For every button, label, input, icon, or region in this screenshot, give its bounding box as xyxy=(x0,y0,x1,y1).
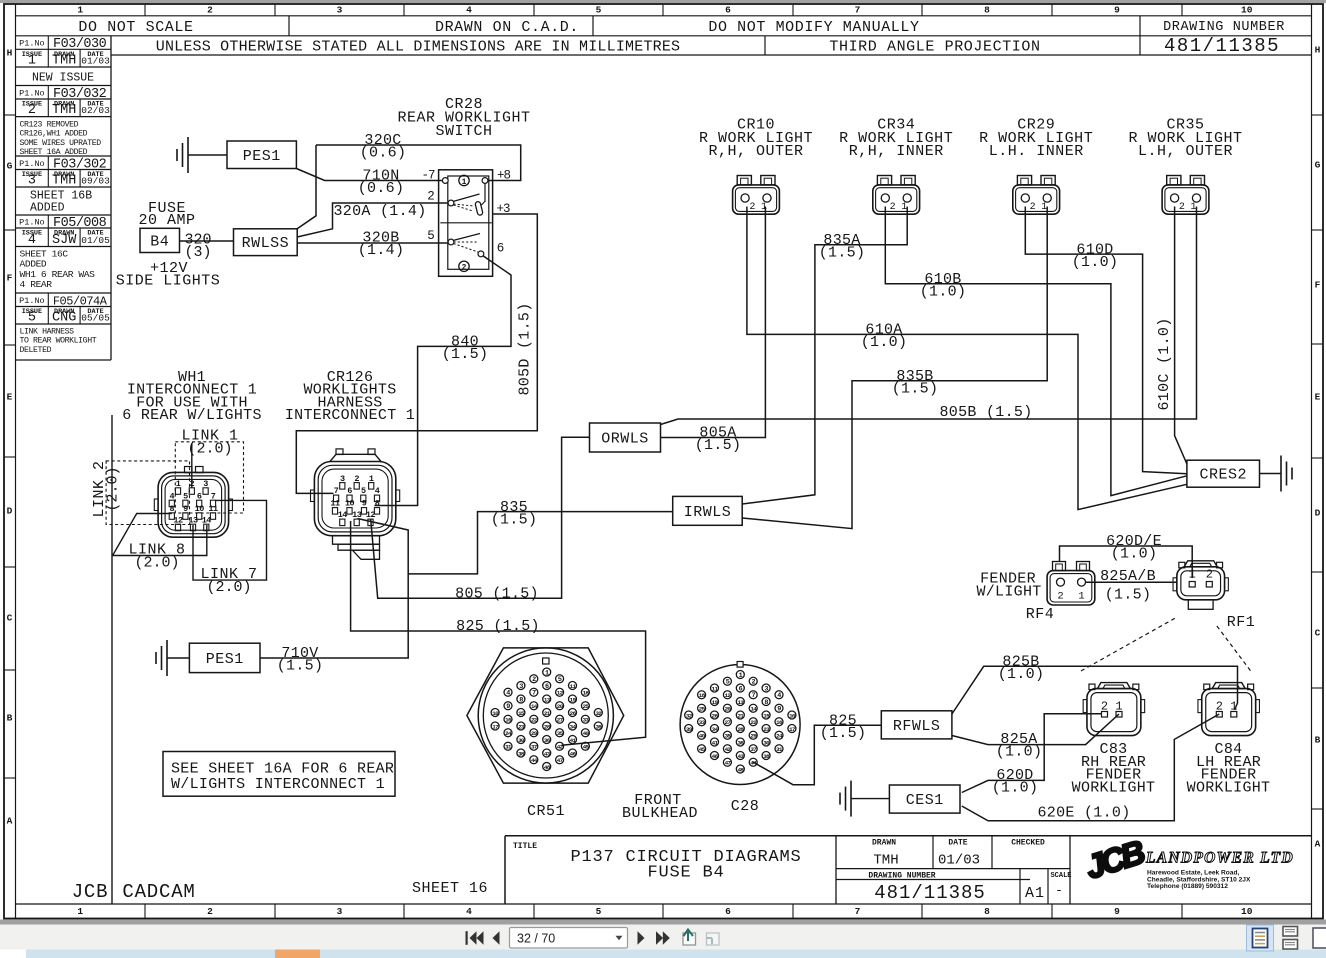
svg-text:C: C xyxy=(7,613,13,624)
svg-text:01/03: 01/03 xyxy=(81,56,110,67)
svg-text:RF4: RF4 xyxy=(1026,606,1055,623)
svg-text:TO REAR WORKLIGHT: TO REAR WORKLIGHT xyxy=(20,337,97,346)
svg-text:(2.0): (2.0) xyxy=(187,441,232,458)
svg-text:4: 4 xyxy=(466,906,472,917)
svg-text:610C (1.0): 610C (1.0) xyxy=(1156,317,1173,410)
svg-text:RFWLS: RFWLS xyxy=(893,718,941,735)
svg-text:481/11385: 481/11385 xyxy=(874,882,986,904)
svg-text:UNLESS OTHERWISE STATED ALL DI: UNLESS OTHERWISE STATED ALL DIMENSIONS A… xyxy=(156,39,680,56)
svg-text:JCB: JCB xyxy=(72,881,109,903)
svg-text:PES1: PES1 xyxy=(243,148,281,165)
svg-text:DRAWN: DRAWN xyxy=(872,839,896,848)
svg-text:FUSE B4: FUSE B4 xyxy=(647,864,724,883)
svg-text:INTERCONNECT 1: INTERCONNECT 1 xyxy=(285,407,415,424)
svg-text:(1.0): (1.0) xyxy=(992,780,1039,797)
svg-text:1: 1 xyxy=(1041,202,1047,213)
svg-text:RWLSS: RWLSS xyxy=(242,235,290,252)
svg-text:(1.0): (1.0) xyxy=(998,666,1045,683)
svg-text:WORKLIGHT: WORKLIGHT xyxy=(1187,779,1271,796)
svg-text:(2.0): (2.0) xyxy=(206,579,251,596)
svg-text:8: 8 xyxy=(984,906,990,917)
svg-text:805B (1.5): 805B (1.5) xyxy=(939,404,1032,421)
svg-text:SEE SHEET 16A FOR 6 REAR: SEE SHEET 16A FOR 6 REAR xyxy=(171,761,394,778)
svg-text:NEW ISSUE: NEW ISSUE xyxy=(32,72,94,85)
svg-text:LANDPOWER LTD: LANDPOWER LTD xyxy=(1145,850,1294,867)
svg-text:2: 2 xyxy=(28,103,36,118)
svg-text:(1.5): (1.5) xyxy=(892,381,939,398)
svg-text:(1.5): (1.5) xyxy=(695,437,742,454)
svg-text:2: 2 xyxy=(1179,202,1185,213)
svg-text:H: H xyxy=(7,48,13,59)
svg-text:TMH: TMH xyxy=(52,103,76,118)
svg-text:(1.0): (1.0) xyxy=(920,284,967,301)
svg-text:4: 4 xyxy=(28,233,36,248)
svg-text:TMH: TMH xyxy=(873,853,898,869)
svg-text:DO NOT MODIFY MANUALLY: DO NOT MODIFY MANUALLY xyxy=(708,19,919,36)
svg-text:9: 9 xyxy=(1114,5,1120,16)
svg-text:2: 2 xyxy=(1057,591,1063,603)
svg-text:825A/B: 825A/B xyxy=(1100,568,1156,585)
svg-text:DRAWING NUMBER: DRAWING NUMBER xyxy=(1163,20,1285,35)
svg-text:(0.6): (0.6) xyxy=(360,145,407,162)
svg-text:TITLE: TITLE xyxy=(513,842,537,851)
svg-text:1: 1 xyxy=(545,669,549,677)
svg-text:2: 2 xyxy=(1030,202,1036,213)
svg-text:2: 2 xyxy=(462,264,467,273)
svg-text:6: 6 xyxy=(497,242,505,256)
svg-text:A: A xyxy=(1315,839,1321,850)
svg-text:5: 5 xyxy=(427,229,435,243)
svg-text:P1.No: P1.No xyxy=(19,296,45,306)
svg-text:320A (1.4): 320A (1.4) xyxy=(333,203,426,220)
svg-text:H: H xyxy=(1315,45,1321,56)
svg-text:P1.No: P1.No xyxy=(19,159,45,169)
svg-text:4: 4 xyxy=(466,5,472,16)
svg-text:G: G xyxy=(1315,160,1321,171)
svg-text:G: G xyxy=(7,161,13,172)
svg-text:5: 5 xyxy=(726,679,730,687)
svg-text:DRAWN ON C.A.D.: DRAWN ON C.A.D. xyxy=(435,19,579,36)
svg-text:DELETED: DELETED xyxy=(20,346,52,355)
svg-text:6: 6 xyxy=(725,5,731,16)
svg-text:F: F xyxy=(1315,280,1321,291)
svg-text:09/03: 09/03 xyxy=(81,176,110,187)
svg-text:DRAWING NUMBER: DRAWING NUMBER xyxy=(868,872,935,881)
svg-text:1: 1 xyxy=(1078,591,1084,603)
svg-text:SIDE LIGHTS: SIDE LIGHTS xyxy=(116,273,221,290)
svg-text:6: 6 xyxy=(725,906,731,917)
svg-text:CNG: CNG xyxy=(52,311,76,326)
svg-text:CR126,WH1 ADDED: CR126,WH1 ADDED xyxy=(20,130,88,139)
svg-text:P1.No: P1.No xyxy=(19,88,45,98)
svg-text:3: 3 xyxy=(337,906,343,917)
svg-text:(1.5): (1.5) xyxy=(820,725,867,742)
svg-text:8: 8 xyxy=(519,696,523,704)
svg-text:SJW: SJW xyxy=(52,233,77,248)
svg-text:(0.6): (0.6) xyxy=(358,180,405,197)
svg-text:L.H. INNER: L.H. INNER xyxy=(989,143,1084,160)
svg-text:CHECKED: CHECKED xyxy=(1011,839,1045,848)
svg-text:(1.0): (1.0) xyxy=(996,744,1043,761)
svg-text:(1.5): (1.5) xyxy=(1105,587,1152,604)
svg-text:P1.No: P1.No xyxy=(19,218,45,228)
svg-text:-: - xyxy=(1055,883,1063,898)
svg-text:2: 2 xyxy=(890,202,896,213)
svg-text:10: 10 xyxy=(1241,5,1253,16)
svg-text:SHEET 16: SHEET 16 xyxy=(412,880,488,897)
svg-text:(1.0): (1.0) xyxy=(861,334,908,351)
svg-text:805 (1.5): 805 (1.5) xyxy=(455,586,539,603)
svg-text:(1.0): (1.0) xyxy=(1111,546,1158,563)
svg-text:ORWLS: ORWLS xyxy=(601,431,649,448)
svg-text:PES1: PES1 xyxy=(206,651,244,668)
svg-text:(1.5): (1.5) xyxy=(277,658,324,675)
svg-text:7: 7 xyxy=(752,692,756,700)
svg-text:9: 9 xyxy=(1114,906,1120,917)
svg-text:E: E xyxy=(1315,392,1321,403)
svg-text:B: B xyxy=(1315,735,1321,746)
svg-text:620E (1.0): 620E (1.0) xyxy=(1037,805,1130,822)
svg-text:481/11385: 481/11385 xyxy=(1164,35,1280,57)
svg-text:DO NOT SCALE: DO NOT SCALE xyxy=(78,19,193,36)
svg-text:7: 7 xyxy=(855,906,861,917)
svg-text:SWITCH: SWITCH xyxy=(435,123,492,140)
svg-text:1: 1 xyxy=(462,178,467,187)
svg-text:THIRD ANGLE PROJECTION: THIRD ANGLE PROJECTION xyxy=(829,39,1040,56)
svg-text:(2.0): (2.0) xyxy=(134,555,179,572)
svg-text:LINK HARNESS: LINK HARNESS xyxy=(20,328,75,337)
svg-text:3: 3 xyxy=(519,683,523,691)
svg-text:L.H, OUTER: L.H, OUTER xyxy=(1138,143,1233,160)
svg-text:R,H, OUTER: R,H, OUTER xyxy=(708,143,803,160)
svg-text:4 REAR: 4 REAR xyxy=(20,279,53,290)
svg-text:01/03: 01/03 xyxy=(938,853,980,869)
svg-text:2: 2 xyxy=(207,906,213,917)
svg-text:C: C xyxy=(1315,628,1321,639)
svg-text:CR51: CR51 xyxy=(527,803,565,820)
svg-text:(1.5): (1.5) xyxy=(819,245,866,262)
svg-text:5: 5 xyxy=(596,5,602,16)
svg-text:A: A xyxy=(7,816,13,827)
svg-text:SHEET 16A ADDED: SHEET 16A ADDED xyxy=(20,148,88,157)
svg-text:TMH: TMH xyxy=(52,174,76,189)
svg-text:(1.0): (1.0) xyxy=(1072,254,1119,271)
svg-text:7: 7 xyxy=(855,5,861,16)
svg-text:C28: C28 xyxy=(731,798,760,815)
svg-text:825 (1.5): 825 (1.5) xyxy=(456,618,540,635)
svg-text:D: D xyxy=(7,506,13,517)
svg-text:IRWLS: IRWLS xyxy=(684,504,732,521)
svg-text:CADCAM: CADCAM xyxy=(122,881,195,903)
svg-text:805D (1.5): 805D (1.5) xyxy=(517,302,534,395)
svg-text:1: 1 xyxy=(1190,202,1196,213)
svg-text:D: D xyxy=(1315,508,1321,519)
svg-text:1: 1 xyxy=(77,5,83,16)
svg-text:(1.5): (1.5) xyxy=(491,512,538,529)
svg-text:CES1: CES1 xyxy=(906,792,944,809)
svg-text:2: 2 xyxy=(752,679,756,687)
svg-text:05/05: 05/05 xyxy=(81,313,110,324)
svg-text:02/03: 02/03 xyxy=(81,105,110,116)
svg-text:P1.No: P1.No xyxy=(19,39,45,49)
svg-text:TMH: TMH xyxy=(52,54,76,69)
svg-text:E: E xyxy=(7,392,13,403)
svg-text:WORKLIGHT: WORKLIGHT xyxy=(1072,779,1156,796)
svg-text:2: 2 xyxy=(749,202,755,213)
svg-text:R,H, INNER: R,H, INNER xyxy=(849,143,944,160)
svg-text:2: 2 xyxy=(207,5,213,16)
svg-text:(1.4): (1.4) xyxy=(358,242,405,259)
svg-text:1: 1 xyxy=(77,906,83,917)
svg-text:01/05: 01/05 xyxy=(81,235,110,246)
svg-text:1: 1 xyxy=(901,202,907,213)
svg-text:(1.5): (1.5) xyxy=(442,346,489,363)
svg-text:Telephone (01889) 590312: Telephone (01889) 590312 xyxy=(1147,883,1228,890)
svg-text:6 REAR W/LIGHTS: 6 REAR W/LIGHTS xyxy=(122,407,262,424)
svg-text:CR123 REMOVED: CR123 REMOVED xyxy=(20,121,79,130)
svg-text:B: B xyxy=(7,713,13,724)
svg-text:2: 2 xyxy=(1206,568,1213,582)
svg-text:1: 1 xyxy=(28,54,36,69)
svg-text:F: F xyxy=(7,273,13,284)
svg-text:5: 5 xyxy=(28,311,36,326)
svg-text:SOME WIRES UPRATED: SOME WIRES UPRATED xyxy=(20,139,102,148)
svg-text:6: 6 xyxy=(545,683,549,691)
svg-text:5: 5 xyxy=(596,906,602,917)
svg-text:(3): (3) xyxy=(184,244,211,261)
svg-text:ADDED: ADDED xyxy=(30,202,65,215)
svg-text:CRES2: CRES2 xyxy=(1199,467,1247,484)
svg-text:10: 10 xyxy=(1241,906,1253,917)
svg-text:8: 8 xyxy=(984,5,990,16)
svg-text:SCALE: SCALE xyxy=(1050,872,1071,880)
svg-text:32 / 70: 32 / 70 xyxy=(517,932,555,946)
svg-text:W/LIGHT: W/LIGHT xyxy=(976,584,1041,601)
svg-text:2: 2 xyxy=(427,190,435,204)
svg-text:3: 3 xyxy=(28,174,36,189)
svg-text:B4: B4 xyxy=(150,233,169,250)
svg-text:BULKHEAD: BULKHEAD xyxy=(622,805,698,822)
svg-text:RF1: RF1 xyxy=(1227,614,1256,631)
svg-text:A1: A1 xyxy=(1025,885,1045,902)
svg-text:W/LIGHTS INTERCONNECT 1: W/LIGHTS INTERCONNECT 1 xyxy=(171,776,385,793)
svg-text:3: 3 xyxy=(337,5,343,16)
svg-text:20 AMP: 20 AMP xyxy=(138,212,195,229)
svg-text:F05/074A: F05/074A xyxy=(53,294,108,308)
svg-text:(2.0): (2.0) xyxy=(105,466,122,511)
svg-text:DATE: DATE xyxy=(948,839,967,848)
